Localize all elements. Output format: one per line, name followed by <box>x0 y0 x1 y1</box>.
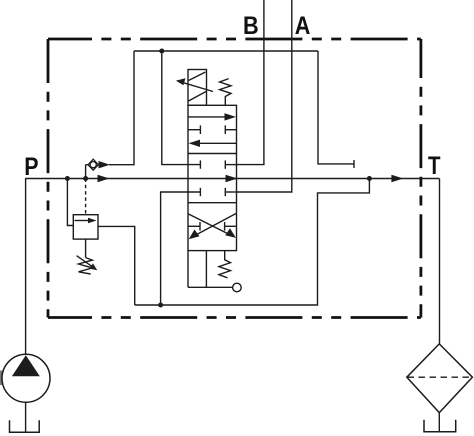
position 3 blocked ports <box>188 222 237 231</box>
drain ball <box>233 283 242 292</box>
scan artifact at left edge <box>0 371 3 386</box>
wire relief outlet to bottom gallery <box>98 226 135 305</box>
junction relief branch <box>65 176 70 181</box>
wire bottom gallery <box>135 179 370 306</box>
relief valve RV1 <box>73 215 98 274</box>
wire pump pressure line <box>25 179 27 356</box>
filter F1 <box>407 344 473 413</box>
wire A port line <box>237 0 292 192</box>
position 1 blocked ports <box>188 125 237 134</box>
plug tick <box>353 160 355 168</box>
flow arrow near T <box>391 175 403 183</box>
wire valve lower-left port drop <box>161 192 201 305</box>
pilot line (dashed) <box>85 179 87 215</box>
svg-text:T: T <box>428 152 441 180</box>
wire valve upper-left port <box>162 51 201 165</box>
position 2 blocked ports (upper row) <box>200 160 236 168</box>
valve block boundary (dashed enclosure) <box>48 39 421 318</box>
valve body position boxes <box>188 105 237 250</box>
proportional solenoid <box>176 70 213 106</box>
flow arrow near P <box>98 175 110 183</box>
valve end-cap with return spring <box>188 251 233 288</box>
wire plugged carry-over port <box>318 51 354 164</box>
wire top gallery <box>134 50 318 52</box>
tank symbol (filter) <box>424 420 456 432</box>
svg-text:A: A <box>295 12 311 40</box>
wire relief inlet branch <box>67 179 73 226</box>
position 3 crossed flow arrows <box>188 213 237 239</box>
position 1: flow arrow right <box>188 116 227 118</box>
position 2 blocked ports (lower row) <box>200 188 236 196</box>
wire T return drop <box>439 179 441 344</box>
junction top gallery to valve feed <box>159 49 164 54</box>
position 1: flow arrow left <box>198 142 237 144</box>
wire filter to tank <box>438 413 440 432</box>
junction return to rail <box>367 176 372 181</box>
pump P1 <box>2 354 50 402</box>
junction valve return drop <box>158 303 163 308</box>
tank symbol (pump) <box>10 420 40 432</box>
wire check valve to top gallery <box>109 51 134 165</box>
svg-text:B: B <box>243 12 259 40</box>
solenoid-end spring <box>220 79 231 106</box>
junction pilot / check branch <box>83 176 88 181</box>
check valve CV1 <box>86 159 110 178</box>
wire B port line <box>237 0 264 165</box>
flow arrow in valve centre position <box>226 175 238 183</box>
wire P-T main rail <box>25 178 439 180</box>
wire pump suction <box>25 402 27 432</box>
svg-text:P: P <box>24 153 38 181</box>
